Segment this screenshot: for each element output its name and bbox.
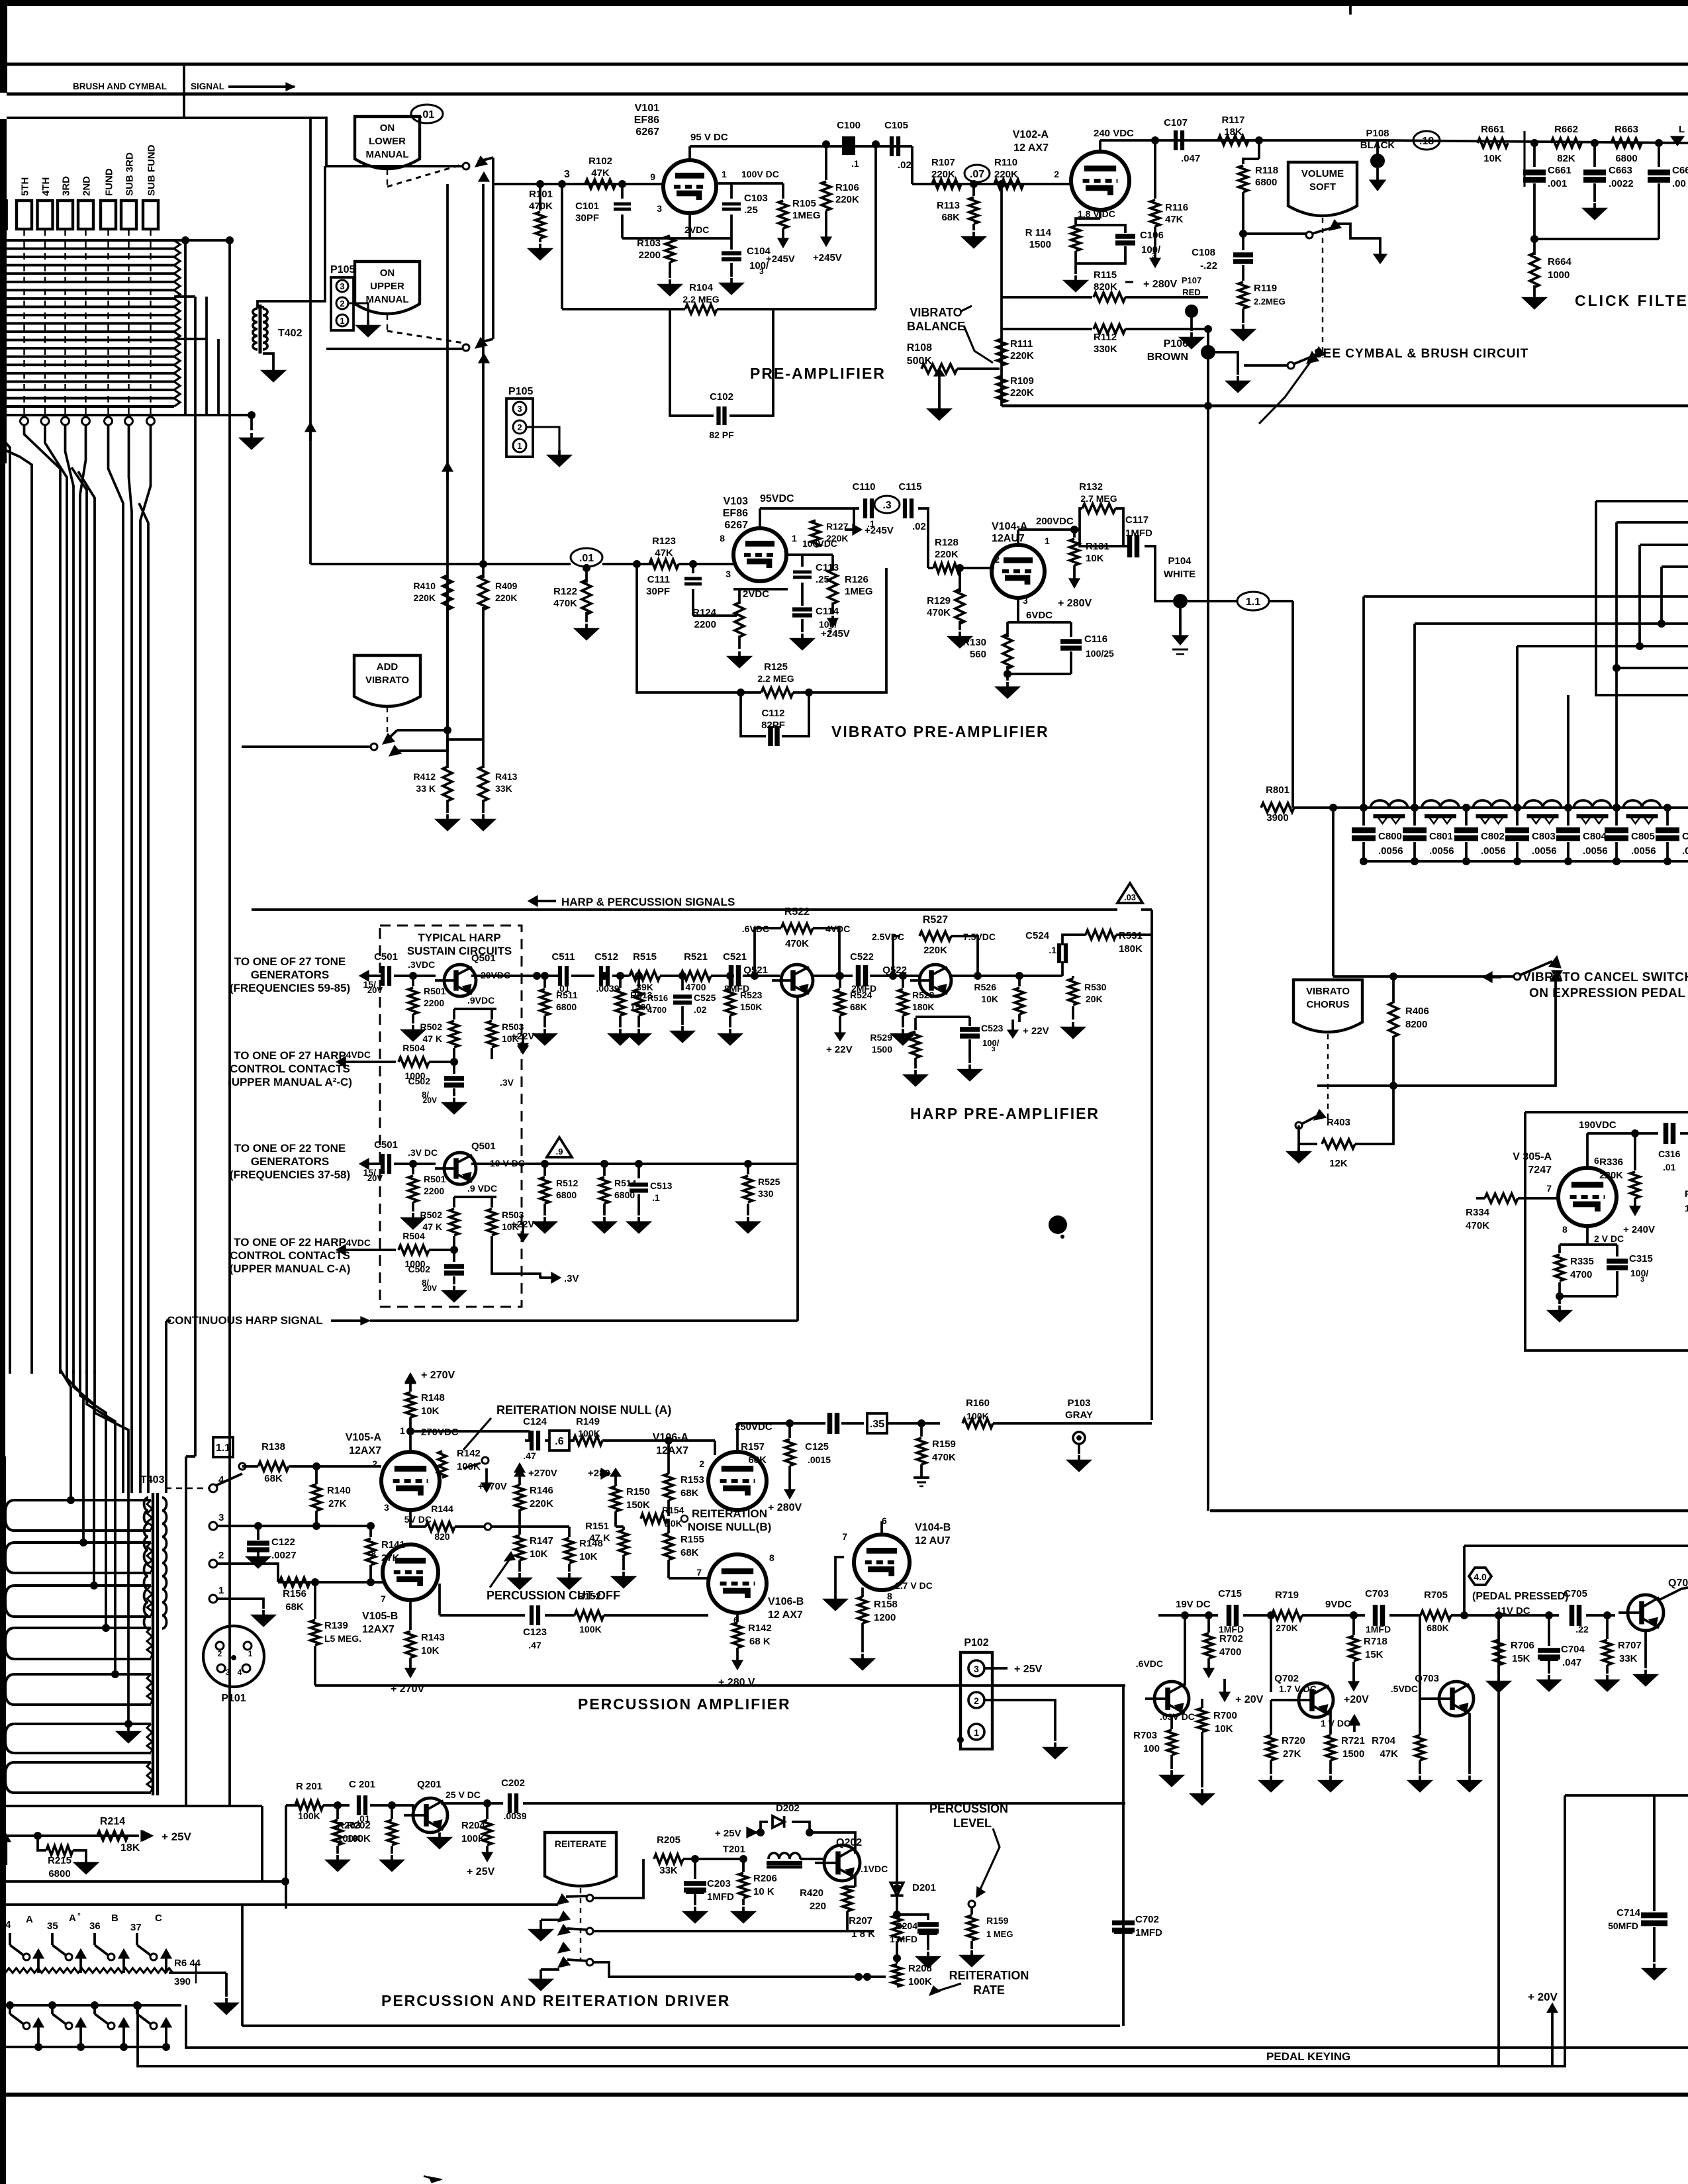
svg-text:10K: 10K <box>1483 153 1502 164</box>
svg-text:240 VDC: 240 VDC <box>1094 128 1134 139</box>
svg-text:+245V: +245V <box>813 252 842 263</box>
svg-text:180K: 180K <box>1119 943 1143 955</box>
svg-text:1 MEG: 1 MEG <box>986 1929 1013 1939</box>
svg-text:100/: 100/ <box>982 1038 1000 1048</box>
svg-text:2ND: 2ND <box>81 176 93 196</box>
svg-text:R147: R147 <box>530 1535 553 1546</box>
svg-text:7247: 7247 <box>1528 1164 1552 1176</box>
svg-text:R525: R525 <box>758 1176 780 1187</box>
svg-text:.35: .35 <box>870 1419 884 1430</box>
svg-text:500K: 500K <box>907 356 933 367</box>
svg-text:ADD: ADD <box>377 661 399 673</box>
svg-text:180K: 180K <box>912 1002 934 1012</box>
svg-text:LEVEL: LEVEL <box>953 1817 992 1830</box>
svg-text:47K: 47K <box>591 167 610 179</box>
svg-text:35: 35 <box>47 1921 58 1932</box>
svg-text:R515: R515 <box>633 951 657 963</box>
svg-text:R158: R158 <box>874 1599 898 1610</box>
svg-text:68K: 68K <box>680 1547 699 1558</box>
svg-text:+ 20V: + 20V <box>1235 1694 1264 1705</box>
svg-text:10K: 10K <box>579 1551 598 1562</box>
svg-text:C801: C801 <box>1429 831 1453 842</box>
svg-text:TO ONE OF 27 TONE: TO ONE OF 27 TONE <box>234 955 346 968</box>
svg-text:R153: R153 <box>680 1474 704 1486</box>
svg-text:ON: ON <box>380 122 395 134</box>
svg-text:C702: C702 <box>1135 1914 1159 1925</box>
svg-text:R103: R103 <box>637 238 661 249</box>
svg-text:1MFD: 1MFD <box>1135 1927 1162 1938</box>
svg-text:150K: 150K <box>740 1002 762 1012</box>
svg-text:R208: R208 <box>908 1963 932 1974</box>
svg-text:R410: R410 <box>414 581 436 591</box>
svg-text:R3: R3 <box>1685 1188 1688 1199</box>
svg-text:150K: 150K <box>626 1499 650 1511</box>
svg-text:+ 25V: + 25V <box>715 1828 741 1839</box>
svg-text:REITERATION: REITERATION <box>692 1507 767 1520</box>
svg-text:.01: .01 <box>420 109 434 120</box>
svg-text:C315: C315 <box>1629 1253 1653 1264</box>
svg-text:R334: R334 <box>1466 1207 1490 1218</box>
svg-text:.3V: .3V <box>564 1273 579 1284</box>
svg-text:C102: C102 <box>710 391 733 403</box>
svg-text:220K: 220K <box>1010 350 1034 361</box>
svg-text:.03: .03 <box>1124 892 1136 902</box>
svg-text:C501: C501 <box>374 1139 398 1151</box>
svg-text:100/: 100/ <box>1141 244 1161 256</box>
svg-text:1: 1 <box>218 1585 224 1596</box>
svg-text:1.1: 1.1 <box>1246 596 1260 608</box>
svg-text:EF86: EF86 <box>723 508 748 519</box>
svg-text:68K: 68K <box>680 1488 699 1499</box>
svg-text:27K: 27K <box>381 1552 400 1564</box>
svg-text:R146: R146 <box>530 1485 553 1496</box>
svg-text:220K: 220K <box>923 945 947 956</box>
svg-text:2: 2 <box>699 1458 704 1469</box>
svg-text:560: 560 <box>970 649 986 660</box>
svg-text:1500: 1500 <box>872 1044 892 1055</box>
svg-text:REITERATION: REITERATION <box>949 1969 1029 1982</box>
svg-text:8: 8 <box>769 1552 774 1563</box>
svg-text:R801: R801 <box>1266 784 1289 796</box>
svg-text:.22: .22 <box>1575 1624 1589 1635</box>
svg-text:10K: 10K <box>530 1548 548 1560</box>
svg-text:220K: 220K <box>414 593 436 603</box>
svg-text:.00: .00 <box>1682 845 1688 857</box>
svg-text:.02: .02 <box>898 160 912 171</box>
svg-text:2: 2 <box>372 1458 377 1469</box>
svg-text:C66: C66 <box>1672 165 1688 176</box>
svg-text:100K: 100K <box>579 1624 601 1635</box>
svg-text:C513: C513 <box>650 1180 673 1191</box>
svg-text:2.7 MEG: 2.7 MEG <box>1080 493 1117 504</box>
svg-text:2.5VDC: 2.5VDC <box>872 931 904 942</box>
svg-text:6800: 6800 <box>556 1002 577 1012</box>
svg-text:68K: 68K <box>285 1601 304 1613</box>
svg-text:R149: R149 <box>576 1416 600 1427</box>
svg-text:4: 4 <box>238 1668 242 1677</box>
svg-text:+22V: +22V <box>511 1031 534 1042</box>
svg-text:1: 1 <box>517 441 522 451</box>
svg-text:.47: .47 <box>528 1640 541 1650</box>
svg-text:C501: C501 <box>374 951 398 963</box>
svg-text:P103: P103 <box>1067 1398 1090 1409</box>
svg-text:C512: C512 <box>594 951 618 963</box>
svg-text:R504: R504 <box>402 1231 425 1241</box>
svg-text:2 V DC: 2 V DC <box>1594 1233 1624 1244</box>
svg-text:TO ONE OF 22 HARP: TO ONE OF 22 HARP <box>234 1236 346 1249</box>
svg-text:390: 390 <box>174 1976 191 1987</box>
svg-text:V105-B: V105-B <box>362 1611 398 1622</box>
svg-text:12 AX7: 12 AX7 <box>1013 142 1049 154</box>
svg-text:9: 9 <box>650 171 655 182</box>
svg-text:R159: R159 <box>986 1915 1009 1926</box>
svg-text:3: 3 <box>992 1046 996 1053</box>
svg-text:.6: .6 <box>555 1436 563 1447</box>
svg-text:.9: .9 <box>556 1147 563 1157</box>
svg-text:Q501: Q501 <box>471 953 496 964</box>
svg-text:BROWN: BROWN <box>1147 352 1188 363</box>
svg-text:(UPPER MANUAL A²-C): (UPPER MANUAL A²-C) <box>228 1076 352 1088</box>
svg-text:B: B <box>111 1913 118 1924</box>
svg-text:A: A <box>26 1914 33 1925</box>
svg-text:R721: R721 <box>1341 1735 1365 1746</box>
svg-text:R719: R719 <box>1275 1590 1299 1601</box>
svg-text:R214: R214 <box>100 1816 125 1827</box>
svg-text:R115: R115 <box>1094 269 1117 281</box>
svg-text:C203: C203 <box>707 1878 731 1889</box>
svg-text:R150: R150 <box>626 1486 650 1497</box>
svg-text:33K: 33K <box>1619 1653 1638 1664</box>
svg-text:C100: C100 <box>837 120 861 131</box>
svg-text:36: 36 <box>89 1921 101 1932</box>
svg-text:1: 1 <box>1045 536 1050 546</box>
svg-text:.0056: .0056 <box>1429 845 1454 857</box>
svg-text:C524: C524 <box>1025 930 1050 941</box>
svg-text:27K: 27K <box>1283 1748 1301 1760</box>
svg-text:R128: R128 <box>935 537 959 548</box>
svg-text:1 MFD: 1 MFD <box>890 1934 917 1944</box>
svg-text:C705: C705 <box>1564 1588 1587 1599</box>
svg-text:4VDC: 4VDC <box>346 1237 371 1248</box>
svg-text:.02: .02 <box>912 521 926 532</box>
svg-text:3: 3 <box>974 1664 979 1674</box>
svg-text:47 K: 47 K <box>422 1221 442 1232</box>
svg-text:VIBRATO PRE-AMPLIFIER: VIBRATO PRE-AMPLIFIER <box>831 723 1049 740</box>
svg-text:20K: 20K <box>1086 994 1103 1004</box>
svg-text:20V: 20V <box>423 1284 437 1293</box>
svg-text:47 K: 47 K <box>589 1533 610 1544</box>
svg-text:270K: 270K <box>1276 1623 1297 1633</box>
svg-text:C663: C663 <box>1609 165 1632 176</box>
svg-text:ON: ON <box>380 267 395 279</box>
svg-text:3: 3 <box>657 203 662 214</box>
svg-text:.1VDC: .1VDC <box>861 1864 888 1874</box>
svg-text:.0039: .0039 <box>503 1811 526 1821</box>
svg-text:C204: C204 <box>896 1921 918 1931</box>
svg-text:C316: C316 <box>1658 1149 1681 1159</box>
svg-text:R524: R524 <box>850 990 872 1000</box>
svg-text:12AX7: 12AX7 <box>656 1445 688 1456</box>
svg-text:.3VDC: .3VDC <box>408 959 435 970</box>
svg-text:1MFD: 1MFD <box>1125 528 1152 539</box>
svg-text:100V DC: 100V DC <box>741 169 779 179</box>
svg-text:R104: R104 <box>689 282 714 293</box>
svg-text:8: 8 <box>720 533 725 544</box>
svg-text:R336: R336 <box>1599 1157 1623 1168</box>
svg-text:Q202: Q202 <box>836 1837 862 1848</box>
svg-text:R706: R706 <box>1511 1640 1534 1651</box>
svg-text:R702: R702 <box>1219 1633 1243 1644</box>
svg-text:.1: .1 <box>851 158 859 169</box>
svg-text:HARP PRE-AMPLIFIER: HARP PRE-AMPLIFIER <box>910 1105 1100 1122</box>
svg-text:2200: 2200 <box>424 998 444 1008</box>
svg-text:6800: 6800 <box>556 1190 577 1200</box>
svg-text:R521: R521 <box>684 951 708 963</box>
svg-text:33 K: 33 K <box>416 783 436 794</box>
svg-text:R522: R522 <box>784 906 810 918</box>
svg-text:R 201: R 201 <box>296 1781 322 1792</box>
svg-text:C523: C523 <box>981 1023 1004 1033</box>
svg-text:R109: R109 <box>1010 375 1034 387</box>
svg-text:V101: V101 <box>635 103 659 114</box>
svg-text:.047: .047 <box>1562 1657 1581 1668</box>
svg-text:680K: 680K <box>1427 1623 1448 1633</box>
svg-text:.9VDC: .9VDC <box>467 995 494 1006</box>
svg-text:R700: R700 <box>1213 1710 1237 1721</box>
svg-text:SOFT: SOFT <box>1309 181 1336 193</box>
svg-text:C522: C522 <box>850 951 874 963</box>
svg-text:CLICK FILTER: CLICK FILTER <box>1575 292 1688 309</box>
svg-text:R113: R113 <box>937 200 960 211</box>
svg-text:R148: R148 <box>421 1392 445 1403</box>
svg-text:1: 1 <box>248 1649 253 1658</box>
svg-text:R205: R205 <box>657 1834 680 1846</box>
svg-text:C125: C125 <box>805 1441 829 1452</box>
svg-text:EF86: EF86 <box>634 115 659 126</box>
svg-text:3: 3 <box>218 1512 224 1523</box>
svg-text:R112: R112 <box>1094 332 1117 343</box>
svg-text:100K: 100K <box>578 1428 600 1439</box>
svg-text:R111: R111 <box>1010 338 1033 350</box>
svg-text:4TH: 4TH <box>40 177 52 196</box>
svg-text:1500: 1500 <box>1029 239 1051 250</box>
svg-text:100/: 100/ <box>1630 1268 1648 1278</box>
svg-text:100K: 100K <box>966 1411 988 1421</box>
svg-text:4700: 4700 <box>685 982 706 992</box>
svg-text:100: 100 <box>1143 1743 1160 1754</box>
svg-text:VIBRATO: VIBRATO <box>365 675 409 686</box>
svg-text:R130: R130 <box>962 637 986 648</box>
svg-text:+ 280V: + 280V <box>1058 598 1092 609</box>
svg-text:R526: R526 <box>974 982 997 992</box>
svg-text:12K: 12K <box>1329 1158 1348 1169</box>
svg-text:SUB FUND: SUB FUND <box>146 144 158 196</box>
svg-text:C703: C703 <box>1365 1588 1389 1599</box>
svg-text:C802: C802 <box>1481 831 1505 842</box>
svg-text:.1: .1 <box>1049 945 1056 955</box>
svg-text:+ 20V: + 20V <box>1528 1991 1558 2003</box>
svg-text:19V DC: 19V DC <box>1176 1599 1211 1610</box>
svg-text:C704: C704 <box>1561 1644 1585 1655</box>
svg-text:200VDC: 200VDC <box>1036 516 1074 527</box>
svg-text:33K: 33K <box>495 783 512 794</box>
svg-text:R511: R511 <box>556 990 578 1000</box>
svg-text:2.2 MEG: 2.2 MEG <box>757 673 794 684</box>
svg-text:R661: R661 <box>1481 124 1505 135</box>
svg-text:CONTROL CONTACTS: CONTROL CONTACTS <box>230 1063 350 1075</box>
svg-text:A: A <box>69 1913 76 1924</box>
svg-text:R720: R720 <box>1282 1735 1305 1746</box>
svg-text:2: 2 <box>218 1649 222 1658</box>
svg-text:1MFD: 1MFD <box>1366 1624 1391 1635</box>
svg-text:.0015: .0015 <box>808 1454 831 1465</box>
svg-text:6VDC: 6VDC <box>1026 610 1053 621</box>
svg-text:68K: 68K <box>850 1002 867 1012</box>
svg-text:V106-B: V106-B <box>768 1596 804 1607</box>
svg-text:C8: C8 <box>1682 831 1688 842</box>
svg-text:4700: 4700 <box>1219 1646 1241 1658</box>
svg-text:.03V DC: .03V DC <box>1160 1711 1195 1722</box>
svg-text:C 201: C 201 <box>349 1779 375 1790</box>
svg-text:R102: R102 <box>588 156 612 167</box>
svg-text:L5 MEG.: L5 MEG. <box>324 1633 361 1644</box>
svg-text:R502: R502 <box>420 1021 443 1032</box>
svg-text:95 V DC: 95 V DC <box>690 132 728 143</box>
svg-text:R512: R512 <box>556 1178 579 1188</box>
svg-text:GENERATORS: GENERATORS <box>251 969 329 981</box>
svg-text:820K: 820K <box>1094 281 1117 293</box>
svg-text:2: 2 <box>517 422 522 432</box>
svg-text:R501: R501 <box>424 986 446 996</box>
svg-text:220K: 220K <box>994 169 1018 180</box>
svg-text:330: 330 <box>758 1188 774 1199</box>
svg-text:R335: R335 <box>1570 1256 1594 1267</box>
svg-text:T402: T402 <box>278 328 303 339</box>
svg-text:R157: R157 <box>741 1441 765 1452</box>
svg-text:470K: 470K <box>927 607 951 618</box>
svg-text:CONTINUOUS HARP SIGNAL: CONTINUOUS HARP SIGNAL <box>167 1314 323 1327</box>
svg-text:C101: C101 <box>575 201 599 212</box>
svg-text:+245V: +245V <box>766 254 795 265</box>
svg-text:.9 VDC: .9 VDC <box>467 1183 497 1194</box>
svg-text:1: 1 <box>340 316 344 326</box>
svg-text:30PF: 30PF <box>575 213 599 224</box>
svg-text:82K: 82K <box>1557 153 1575 164</box>
svg-text:+ 240V: + 240V <box>1623 1224 1655 1235</box>
svg-text:PERCUSSION AND REITERATION: PERCUSSION AND REITERATION DRIVER <box>381 1992 730 2009</box>
svg-text:12 AX7: 12 AX7 <box>768 1609 803 1621</box>
svg-text:R105: R105 <box>792 198 816 209</box>
svg-text:2: 2 <box>340 299 344 309</box>
svg-text:P105: P105 <box>508 386 533 397</box>
svg-text:.3V: .3V <box>500 1077 514 1088</box>
svg-text:R530: R530 <box>1084 982 1107 992</box>
svg-text:V103: V103 <box>724 496 748 507</box>
svg-text:P102: P102 <box>964 1637 988 1648</box>
svg-text:R119: R119 <box>1254 283 1277 294</box>
svg-text:.1: .1 <box>652 1192 660 1203</box>
svg-text:+ 22V: + 22V <box>1023 1025 1049 1037</box>
svg-text:2.2 MEG: 2.2 MEG <box>682 294 719 305</box>
svg-text:V104-B: V104-B <box>915 1522 951 1533</box>
svg-text:L: L <box>1679 124 1685 135</box>
svg-text:SIGNAL: SIGNAL <box>191 81 224 91</box>
svg-text:2.2MEG: 2.2MEG <box>1254 297 1286 307</box>
svg-text:C502: C502 <box>408 1076 431 1086</box>
svg-text:R152: R152 <box>577 1591 601 1602</box>
svg-text:R516: R516 <box>647 993 668 1003</box>
svg-text:15K: 15K <box>1512 1653 1530 1664</box>
svg-text:220K: 220K <box>835 194 859 205</box>
svg-text:VIBRATO CANCEL SWITCH: VIBRATO CANCEL SWITCH <box>1523 971 1688 984</box>
svg-text:.047: .047 <box>1181 153 1200 164</box>
svg-text:3RD: 3RD <box>61 176 72 196</box>
svg-text:P101: P101 <box>221 1693 246 1704</box>
svg-text:C107: C107 <box>1164 117 1188 128</box>
svg-text:+22V: +22V <box>511 1219 534 1230</box>
svg-text:68K: 68K <box>748 1454 767 1466</box>
svg-text:.0022: .0022 <box>1609 178 1634 189</box>
svg-text:.001: .001 <box>1548 178 1567 189</box>
svg-text:R523: R523 <box>740 990 763 1000</box>
svg-text:C108: C108 <box>1192 247 1215 258</box>
svg-text:10K: 10K <box>1086 553 1104 564</box>
svg-text:+270V: +270V <box>528 1468 557 1479</box>
svg-text:20V: 20V <box>423 1096 437 1105</box>
svg-text:20V: 20V <box>367 1173 383 1183</box>
svg-text:+ 25V: + 25V <box>467 1866 495 1877</box>
svg-text:220K: 220K <box>935 549 959 560</box>
svg-text:R501: R501 <box>424 1174 446 1184</box>
svg-text:C525: C525 <box>694 992 716 1003</box>
svg-text:.01: .01 <box>1663 1162 1676 1172</box>
svg-text:R409: R409 <box>495 581 518 591</box>
svg-text:2VDC: 2VDC <box>684 224 709 235</box>
svg-text:4700: 4700 <box>1570 1269 1592 1280</box>
svg-text:C106: C106 <box>1140 230 1164 241</box>
svg-text:+ 25V: + 25V <box>1014 1664 1043 1675</box>
svg-text:2: 2 <box>974 1695 979 1706</box>
svg-text:1500: 1500 <box>1342 1748 1364 1760</box>
svg-text:R705: R705 <box>1424 1590 1448 1601</box>
svg-text:BRUSH AND CYMBAL: BRUSH AND CYMBAL <box>73 81 167 91</box>
svg-text:T201: T201 <box>723 1844 745 1855</box>
svg-text:SUB 3RD: SUB 3RD <box>124 152 136 196</box>
svg-text:10K: 10K <box>421 1405 440 1417</box>
svg-text:7: 7 <box>842 1531 847 1542</box>
svg-text:C122: C122 <box>271 1537 295 1548</box>
svg-text:3: 3 <box>340 281 344 291</box>
svg-text:1.7 V DC: 1.7 V DC <box>1279 1684 1317 1694</box>
svg-text:1: 1 <box>974 1727 979 1738</box>
svg-text:3: 3 <box>1152 251 1156 260</box>
svg-text:CONTROL CONTACTS: CONTROL CONTACTS <box>230 1249 350 1262</box>
svg-text:SEE CYMBAL & BRUSH CIRCUIT: SEE CYMBAL & BRUSH CIRCUIT <box>1314 347 1528 361</box>
svg-text:6800: 6800 <box>48 1868 70 1879</box>
svg-text:100K: 100K <box>461 1833 485 1844</box>
svg-text:CHORUS: CHORUS <box>1306 999 1349 1010</box>
svg-text:C105: C105 <box>884 120 908 131</box>
svg-text:1MEG: 1MEG <box>792 210 821 221</box>
svg-text:Q702: Q702 <box>1274 1673 1299 1684</box>
svg-text:+ 270V: + 270V <box>421 1370 455 1381</box>
svg-text:220K: 220K <box>931 169 955 180</box>
svg-text:R 114: R 114 <box>1025 227 1052 238</box>
svg-text:C202: C202 <box>501 1778 525 1789</box>
svg-text:2200: 2200 <box>639 250 661 261</box>
svg-text:190VDC: 190VDC <box>1579 1119 1617 1131</box>
svg-text:REITERATION NOISE NULL (A): REITERATION NOISE NULL (A) <box>496 1403 671 1417</box>
